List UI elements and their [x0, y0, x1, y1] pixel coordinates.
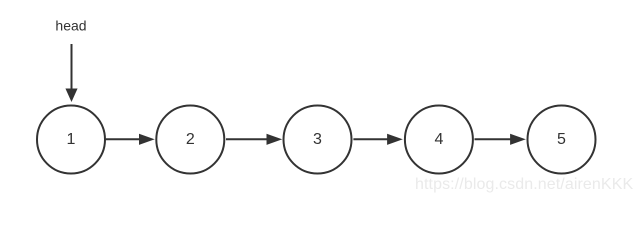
svg-text:4: 4	[434, 131, 443, 148]
wire arrow 4-5	[475, 134, 525, 144]
node 4	[405, 106, 473, 174]
node 2	[156, 106, 224, 174]
svg-text:1: 1	[67, 131, 76, 148]
node 5	[528, 106, 596, 174]
wire arrow 1-2	[106, 134, 154, 144]
svg-text:2: 2	[186, 131, 195, 148]
node 3	[284, 106, 352, 174]
svg-text:head: head	[55, 18, 86, 34]
svg-text:https://blog.csdn.net/airenKKK: https://blog.csdn.net/airenKKK	[415, 176, 633, 193]
wire arrow 3-4	[353, 134, 401, 144]
svg-text:5: 5	[557, 131, 566, 148]
svg-text:3: 3	[313, 131, 322, 148]
wire head arrow	[66, 44, 77, 101]
wire arrow 2-3	[226, 134, 281, 144]
node 1	[37, 106, 105, 174]
